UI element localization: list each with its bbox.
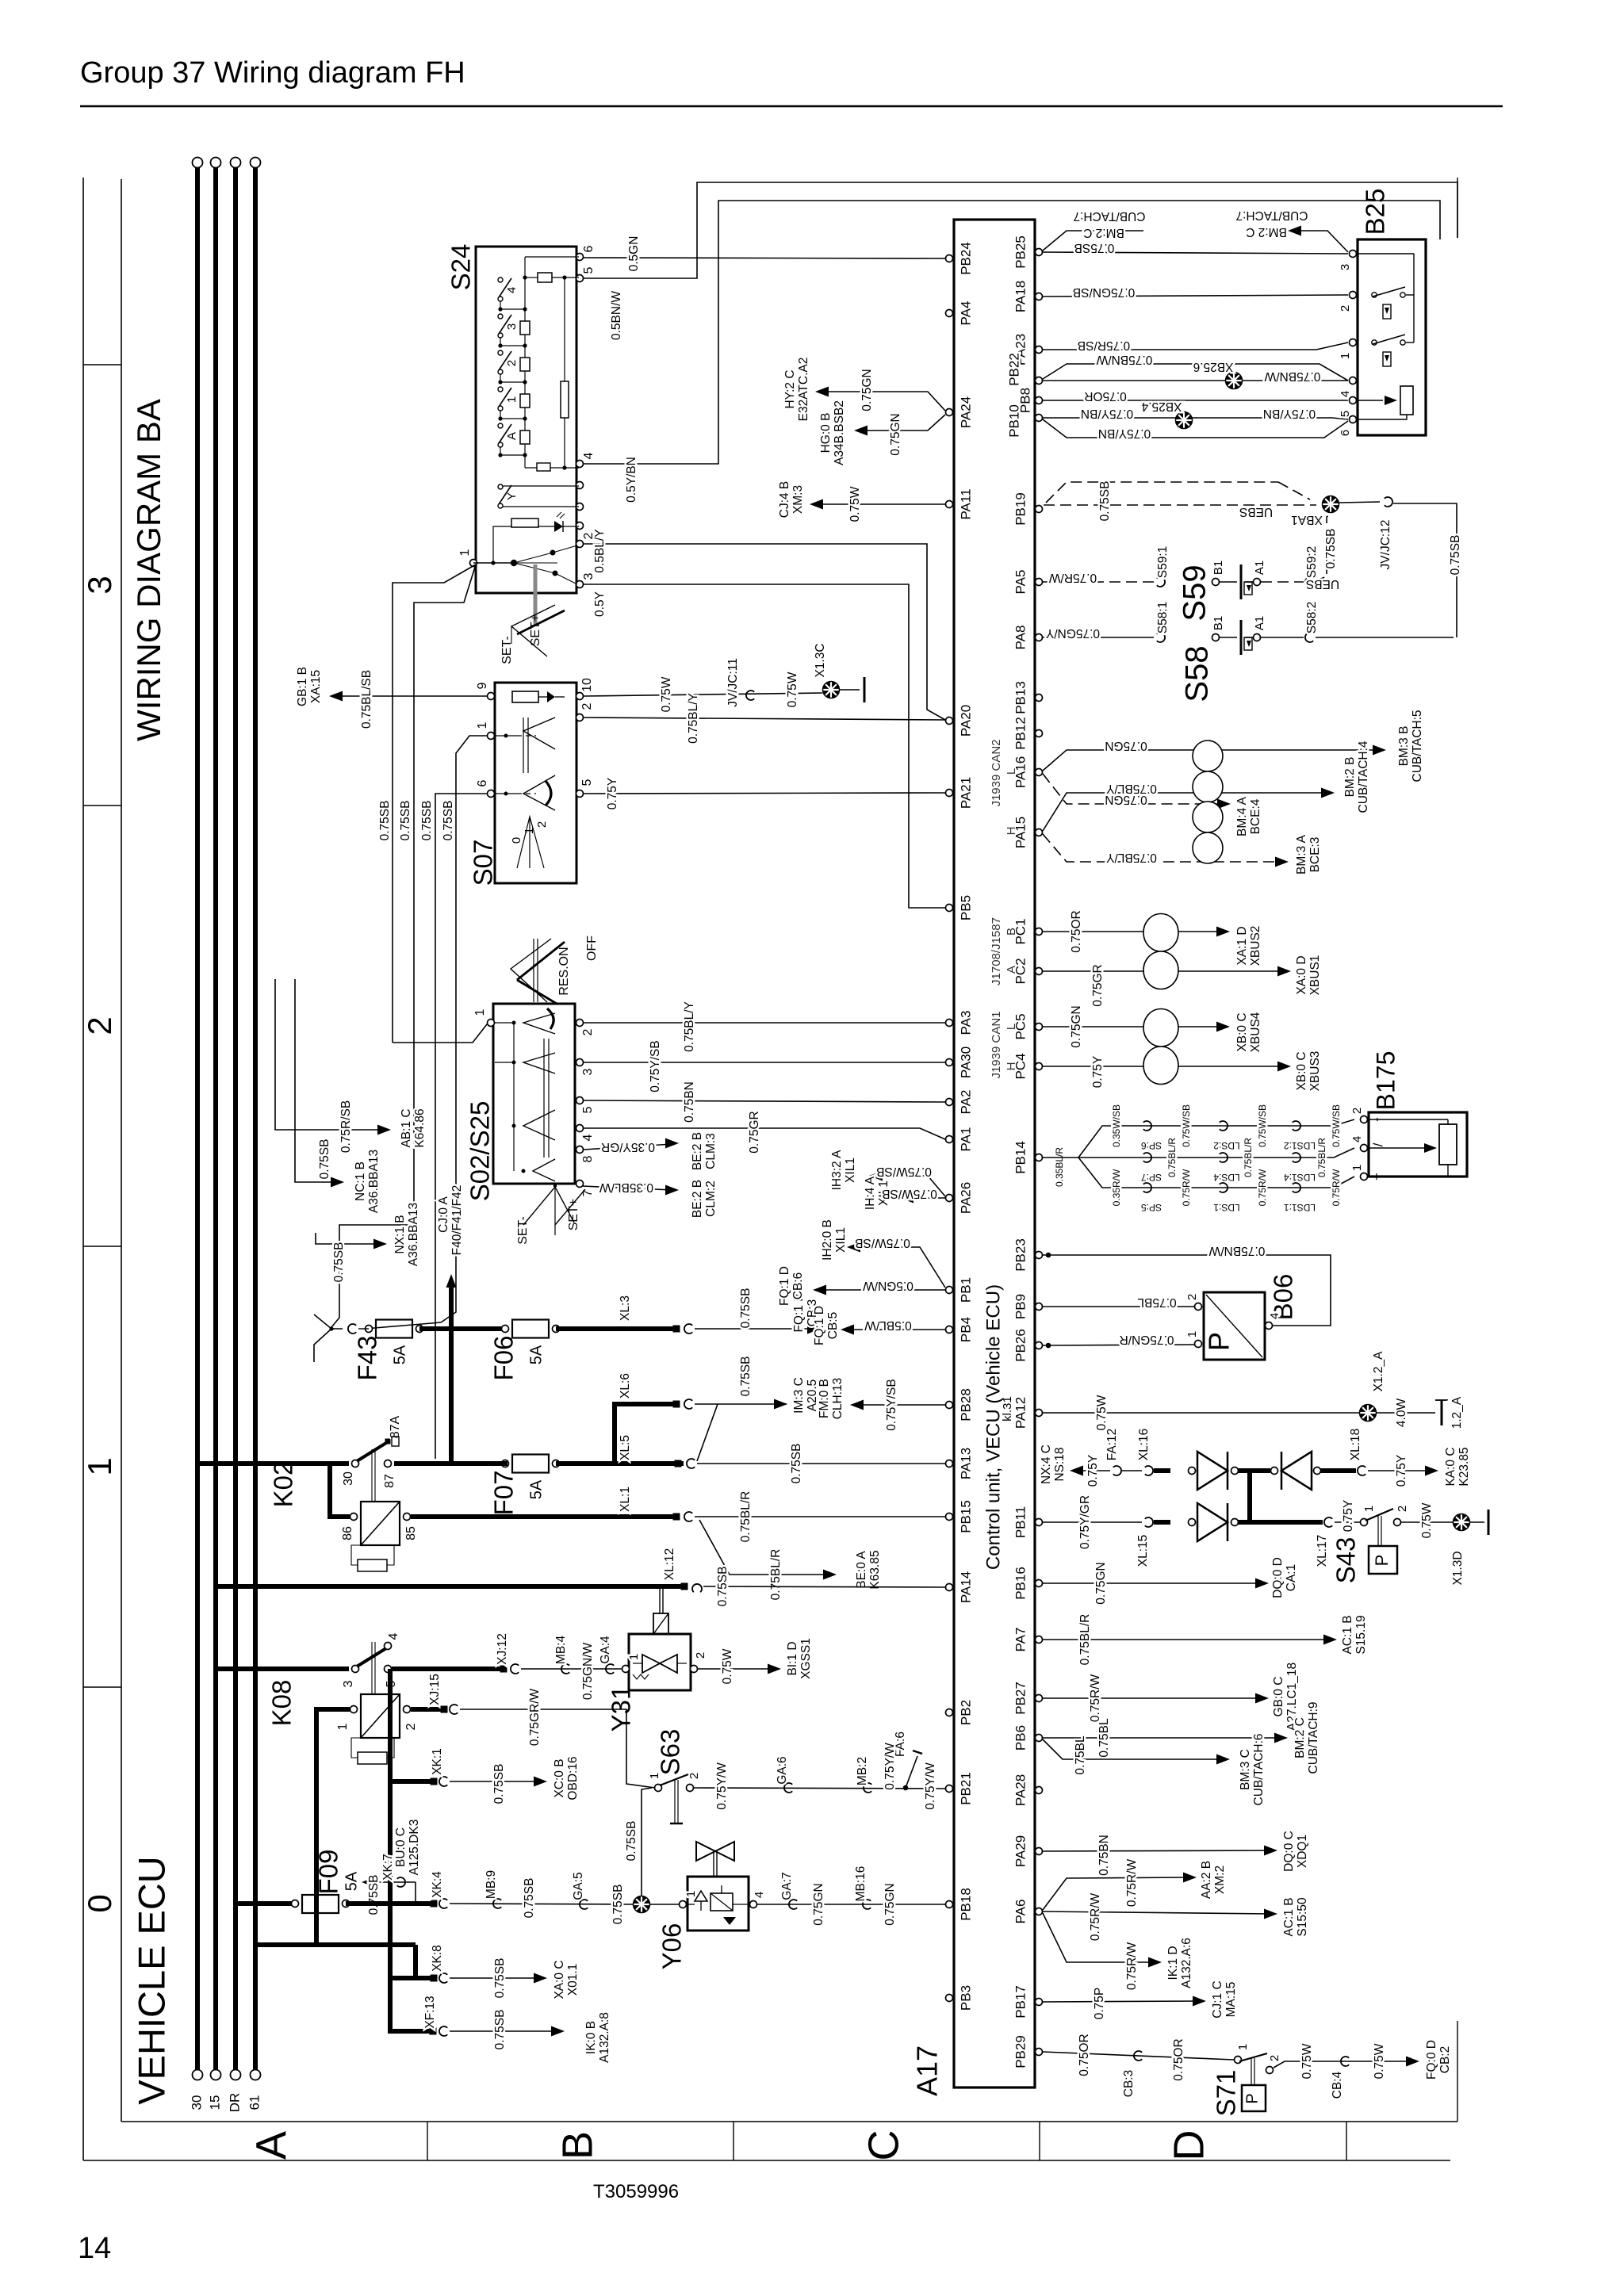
- svg-text:CB:2: CB:2: [1438, 2046, 1452, 2073]
- svg-text:5A: 5A: [391, 1345, 408, 1364]
- wire PA26 split to XIL1 arrows: [875, 1176, 945, 1196]
- F43 input V split: [314, 1314, 343, 1329]
- K08 coil: [361, 1694, 400, 1738]
- ground X1.3D: [1488, 1510, 1490, 1535]
- svg-text:0.75Y/BN: 0.75Y/BN: [1098, 427, 1151, 440]
- svg-text:5A: 5A: [527, 1479, 545, 1499]
- svg-text:IM:3 C: IM:3 C: [792, 1377, 806, 1414]
- svg-text:PB5: PB5: [958, 895, 973, 920]
- svg-text:A125.DK3: A125.DK3: [408, 1820, 421, 1876]
- A17 pin PA21: [946, 790, 953, 797]
- thick wire to XF:13: [390, 1945, 432, 2031]
- svg-text:IH:4 A: IH:4 A: [864, 1176, 877, 1210]
- svg-text:F06: F06: [489, 1336, 519, 1381]
- svg-text:1: 1: [473, 1008, 487, 1016]
- wire S07 pin10 right (0.75W JV/JC:11): [584, 693, 822, 696]
- svg-text:PA2: PA2: [958, 1090, 973, 1115]
- LDS row 3: [1078, 1158, 1354, 1188]
- frame letter tick 2: [733, 2122, 734, 2160]
- K08 terminal 4: [385, 1643, 392, 1650]
- svg-text:PA30: PA30: [958, 1047, 973, 1078]
- svg-text:0.75SB: 0.75SB: [493, 2010, 507, 2050]
- svg-text:PB6: PB6: [1013, 1725, 1028, 1751]
- B175 pin 4: [1361, 1145, 1368, 1152]
- svg-text:0.75BN/W: 0.75BN/W: [1096, 353, 1152, 366]
- svg-text:0.5GN/W: 0.5GN/W: [863, 1279, 913, 1292]
- svg-text:4: 4: [505, 287, 519, 293]
- connector LDS:2: [1220, 1121, 1228, 1131]
- svg-text:0.75BL/Y: 0.75BL/Y: [687, 693, 700, 744]
- A17 pin PB23: [1036, 1252, 1043, 1259]
- wire PA12 branch / NX:4 C NS:18 arrow: [1070, 1466, 1083, 1476]
- frame letter tick 1: [427, 2122, 428, 2160]
- svg-text:0.35Y/GR: 0.35Y/GR: [601, 1140, 655, 1154]
- S71 lever: [1239, 2053, 1267, 2061]
- svg-text:0.75R/W: 0.75R/W: [1125, 1858, 1139, 1907]
- svg-text:F40/F41/F42: F40/F41/F42: [450, 1185, 464, 1256]
- svg-text:PA28: PA28: [1013, 1774, 1028, 1806]
- svg-text:SET-: SET-: [500, 636, 514, 664]
- svg-text:61: 61: [247, 2095, 262, 2110]
- A17 pin PB16: [1036, 1580, 1043, 1587]
- B25 internal switches: [1372, 293, 1377, 297]
- K02 terminal 86: [350, 1513, 358, 1521]
- svg-text:4: 4: [1350, 1136, 1364, 1142]
- thick wire bus15 to XL:12: [216, 1584, 682, 1589]
- junction at PB23: [1046, 1253, 1051, 1258]
- twisted pair CAN2 lower: [1193, 802, 1223, 832]
- S43 lever: [1365, 1509, 1393, 1521]
- connector XL:5: [687, 1459, 695, 1468]
- wire X1.3C to ground: [840, 689, 860, 691]
- svg-text:S59:1: S59:1: [1156, 546, 1170, 579]
- svg-text:XIL1: XIL1: [844, 1158, 857, 1183]
- svg-text:0.75BN: 0.75BN: [1097, 1835, 1111, 1876]
- wire PB10 branch (0.75Y/BN) lower: [1043, 419, 1348, 438]
- B25 internal wiring: [1358, 253, 1414, 254]
- svg-text:0.75OR: 0.75OR: [1070, 910, 1083, 952]
- A17 pin PB21: [946, 1785, 953, 1793]
- wire 0.75SB vertical a (S24 pin1 to S02 pin1): [393, 564, 476, 1043]
- A17 pin PC4: [1036, 1063, 1043, 1070]
- svg-text:MB:9: MB:9: [485, 1870, 498, 1899]
- svg-text:1: 1: [1236, 2044, 1250, 2050]
- svg-text:BCE:4: BCE:4: [1249, 798, 1262, 834]
- svg-text:2: 2: [404, 1723, 418, 1730]
- wire PB29 to S71 chain (0.75OR): [1043, 2052, 1234, 2060]
- svg-text:2: 2: [1268, 2055, 1281, 2061]
- connector XK:1: [439, 1777, 447, 1786]
- thick wire F43 out to F06: [419, 1326, 507, 1331]
- svg-text:B1: B1: [1212, 616, 1225, 630]
- wire S24 pin6 to A17 PB24 (0.5GN): [584, 258, 945, 258]
- svg-text:A132.A:6: A132.A:6: [1180, 1938, 1193, 1988]
- wire S07 pin1 down: [365, 736, 487, 1329]
- svg-text:BM:2 C: BM:2 C: [1083, 226, 1124, 239]
- svg-text:K64.86: K64.86: [413, 1108, 427, 1147]
- svg-text:1: 1: [336, 1723, 350, 1730]
- A17 pin PB8: [1036, 397, 1043, 404]
- svg-text:PA13: PA13: [958, 1448, 973, 1479]
- svg-text:0.75BL: 0.75BL: [1074, 1735, 1087, 1775]
- S24 resistor ladder: [524, 257, 526, 468]
- svg-text:XL:1: XL:1: [619, 1487, 632, 1512]
- wire XJ:12 to Y31 pin1 (0.75GN/W): [521, 1668, 622, 1670]
- B175 pin 2: [1361, 1116, 1368, 1123]
- svg-text:XL:15: XL:15: [1136, 1535, 1150, 1567]
- wire K08-5 to XJ:12: [392, 1667, 501, 1671]
- svg-text:1: 1: [684, 1891, 698, 1897]
- wire XK:4 chain MB:9 GA:5 to Y06 (0.75SB): [450, 1904, 634, 1904]
- twisted pair CAN2 upper: [1193, 740, 1223, 771]
- svg-text:GB:1 B: GB:1 B: [296, 667, 309, 706]
- svg-text:XA:0 C: XA:0 C: [553, 1960, 566, 1999]
- svg-text:PB15: PB15: [958, 1500, 973, 1533]
- svg-text:3: 3: [505, 323, 519, 330]
- wire PB22 straight to B25 pin4: [1043, 380, 1348, 381]
- wire XK:7 to BU:0 C A125.DK3 (0.75SB): [368, 1881, 416, 1883]
- wire PA6 branch up to AA:2 B XM:2 (0.75R/W): [1043, 1877, 1190, 1910]
- svg-text:5: 5: [581, 1106, 595, 1113]
- wire Y06 pin1 from splice: [650, 1904, 679, 1905]
- wire S63 pin2 to A17 PB21 chain (0.75Y/W): [694, 1788, 945, 1789]
- svg-text:6: 6: [476, 779, 489, 786]
- svg-text:0.75GN: 0.75GN: [883, 1883, 897, 1925]
- svg-text:DR: DR: [227, 2093, 242, 2113]
- svg-text:MB:16: MB:16: [854, 1866, 868, 1902]
- svg-text:0.75Y/BN: 0.75Y/BN: [1263, 407, 1316, 420]
- wire 0.75SB vertical b (S24 pin1 to F43 area): [331, 564, 476, 1327]
- svg-text:XB25.6: XB25.6: [1193, 360, 1234, 373]
- S59 switch bar: [1240, 564, 1243, 599]
- S43 pin 1: [1361, 1519, 1368, 1526]
- svg-text:0.75W: 0.75W: [848, 486, 862, 522]
- svg-text:0.75Y/GR: 0.75Y/GR: [1078, 1495, 1092, 1549]
- svg-text:BCE:3: BCE:3: [1308, 837, 1322, 873]
- LDS row 2: [1043, 1148, 1354, 1158]
- wire S24 pin5 up-over (0.5BN/W): [584, 182, 1457, 278]
- K08 switch arm: [357, 1648, 386, 1667]
- connector XJ:12: [511, 1664, 519, 1674]
- thick wire F07 out to XL:5 / XL:6: [556, 1461, 684, 1466]
- wire PC2 (0.75GR) to XA:0 D XBUS1: [1043, 970, 1285, 972]
- splice X1.3C: [823, 682, 840, 698]
- svg-text:CUB/TACH:4: CUB/TACH:4: [1357, 740, 1370, 813]
- fuse F43: [376, 1320, 412, 1338]
- svg-text:1: 1: [476, 721, 489, 729]
- wire XF:13 to IK:0 B A132.A:8 (0.75SB): [450, 2030, 558, 2032]
- svg-text:0.75BL/SB: 0.75BL/SB: [360, 670, 373, 729]
- svg-text:0.5BL/Y: 0.5BL/Y: [593, 529, 607, 572]
- wire PC1 (0.75OR) to XA:1 D XBUS2: [1043, 931, 1224, 932]
- svg-text:PA4: PA4: [958, 301, 973, 326]
- svg-text:4: 4: [1339, 391, 1352, 397]
- svg-text:CB:3: CB:3: [1122, 2070, 1136, 2097]
- S58 switch bar: [1240, 620, 1243, 655]
- S24 internal lamp: [511, 519, 538, 527]
- A17 pin PB29: [1036, 2049, 1043, 2056]
- B25 pin 5: [1350, 397, 1357, 404]
- thick wire to K02-86: [330, 1464, 350, 1517]
- svg-text:K02: K02: [269, 1461, 298, 1508]
- svg-text:K08: K08: [267, 1680, 297, 1727]
- wire PA24 split to HY and HG arrows: [822, 392, 945, 411]
- thick wire to XK:8: [390, 1976, 432, 1980]
- B25 pin 4: [1350, 377, 1357, 385]
- frame scale tick 4: [83, 1686, 121, 1688]
- header rule: [80, 105, 1503, 108]
- svg-text:S15.19: S15.19: [1354, 1615, 1368, 1654]
- svg-text:OFF: OFF: [585, 936, 599, 961]
- svg-text:0.75Y/SB: 0.75Y/SB: [885, 1379, 898, 1431]
- svg-text:0.5BN/W: 0.5BN/W: [610, 291, 623, 340]
- frame scale tick 2: [83, 805, 121, 806]
- connector GA:5: [580, 1900, 588, 1909]
- svg-text:XK:7: XK:7: [381, 1854, 395, 1881]
- wire S02 pin8 arrow BE:2 B CLM:3 (0.35Y/GR): [584, 1144, 672, 1150]
- svg-text:A: A: [247, 2131, 295, 2160]
- K02 resistor: [358, 1559, 387, 1571]
- svg-text:PA18: PA18: [1013, 281, 1028, 312]
- svg-text:LDS1:2: LDS1:2: [1284, 1140, 1316, 1151]
- Y31 spring: [633, 1674, 649, 1679]
- wire XL:3 to FQ:1 B CB:3 (0.75SB): [695, 1328, 814, 1330]
- S02/S25 pin 3: [576, 1059, 584, 1066]
- svg-text:Y06: Y06: [657, 1923, 687, 1970]
- svg-text:0.75Y: 0.75Y: [1342, 1500, 1355, 1533]
- svg-text:0.75W: 0.75W: [1420, 1502, 1434, 1538]
- svg-text:0.75SB: 0.75SB: [1449, 535, 1462, 576]
- svg-text:0.75SB: 0.75SB: [523, 1878, 536, 1919]
- connector LDS1:1: [1293, 1183, 1300, 1192]
- svg-text:/: /: [1370, 1142, 1385, 1146]
- svg-text:4: 4: [1268, 1313, 1281, 1319]
- S63 pin 2: [687, 1785, 694, 1792]
- wire XL:1 branch to BE:0 A K63.85 (0.75BL/R): [699, 1520, 830, 1575]
- svg-text:AA:2 B: AA:2 B: [1200, 1861, 1213, 1899]
- svg-text:XK:4: XK:4: [431, 1871, 444, 1898]
- A17 pin PB24: [946, 255, 953, 262]
- svg-text:A: A: [1005, 966, 1018, 974]
- S24 internal switch 4: [498, 277, 503, 282]
- wire PB27 to GB:0 C A27.LC1_18 (0.75R/W): [1043, 1697, 1262, 1699]
- svg-text:XA:0 D: XA:0 D: [1295, 955, 1308, 994]
- splice XB25.4: [1176, 412, 1193, 429]
- connector S59:1: [1157, 577, 1165, 587]
- connector GA:4: [606, 1664, 614, 1674]
- S07 pin 9: [488, 693, 495, 700]
- connector XL:15: [1145, 1517, 1153, 1527]
- thick wire bus61 to K08-1: [316, 1709, 350, 1945]
- svg-text:2: 2: [694, 1652, 707, 1659]
- svg-text:A132.A:8: A132.A:8: [598, 2012, 611, 2063]
- A17 pin PA28: [1036, 1787, 1043, 1794]
- svg-text:PB2: PB2: [958, 1700, 973, 1725]
- wire PA23 to B25 pin1 (0.75R/SB): [1043, 342, 1348, 350]
- wire S02 pin3 to A17 PA30 (0.75Y/SB): [584, 1062, 945, 1063]
- svg-text:A36.BBA13: A36.BBA13: [407, 1203, 420, 1266]
- S02/S25 pin 1: [488, 1020, 495, 1027]
- svg-text:0.5GN: 0.5GN: [627, 236, 641, 272]
- wire to AB:1 C K64.86 (0.75R/SB): [275, 979, 385, 1130]
- svg-text:0.75R/W: 0.75R/W: [1331, 1169, 1342, 1206]
- svg-text:0.5Y: 0.5Y: [593, 591, 607, 617]
- svg-text:XBA1: XBA1: [1291, 513, 1323, 526]
- thick wire D2 to XL:18: [1320, 1468, 1356, 1473]
- K02 coil: [361, 1502, 400, 1545]
- svg-text:RES.ON: RES.ON: [557, 947, 571, 995]
- connector at F43 input: [348, 1324, 356, 1334]
- svg-text:4: 4: [582, 452, 596, 459]
- A17 pin PB17: [1036, 1999, 1043, 2006]
- svg-text:A: A: [505, 432, 519, 440]
- svg-text:SP:7: SP:7: [1141, 1172, 1162, 1183]
- thick link to diode D2: [1238, 1468, 1270, 1473]
- svg-text:A1: A1: [1253, 616, 1266, 630]
- svg-text:0.75Y: 0.75Y: [606, 778, 619, 810]
- A17 pin PA7: [1036, 1636, 1043, 1644]
- B25 pin 6: [1350, 416, 1357, 423]
- svg-text:CUB/TACH:9: CUB/TACH:9: [1307, 1701, 1320, 1774]
- A17 pin PC1: [1036, 928, 1043, 936]
- svg-text:SET+: SET+: [529, 614, 542, 646]
- S24 pin 6: [576, 254, 584, 261]
- A17 pin PA13: [946, 1460, 953, 1468]
- svg-text:CA:1: CA:1: [1285, 1564, 1298, 1591]
- frame letter tick 4: [1346, 2122, 1347, 2160]
- svg-text:0.75GN: 0.75GN: [1105, 739, 1147, 752]
- A17 pin PB19: [1036, 506, 1043, 513]
- S02 set lever symbol: [555, 1189, 585, 1225]
- A17 pin PA6: [1036, 1908, 1043, 1915]
- svg-text:XC:0 B: XC:0 B: [553, 1758, 566, 1797]
- wire PC5 (0.75GN) to XB:0 C XBUS4: [1043, 1026, 1224, 1027]
- svg-text:PA21: PA21: [958, 777, 973, 809]
- svg-text:2: 2: [580, 702, 594, 710]
- A17 pin PB3: [946, 1995, 953, 2002]
- thick wire to XK:1: [390, 1779, 432, 1784]
- A17 pin PA20: [946, 717, 953, 725]
- svg-text:IK:0 B: IK:0 B: [584, 2021, 598, 2054]
- svg-text:E32ATC.A2: E32ATC.A2: [797, 358, 810, 422]
- A17 pin PB12: [1036, 730, 1043, 737]
- svg-text:H: H: [1005, 827, 1018, 836]
- connector XL:3: [684, 1324, 692, 1334]
- svg-text:PA20: PA20: [958, 705, 973, 737]
- svg-text:L: L: [1005, 768, 1018, 775]
- A17 pin PA23: [1036, 346, 1043, 354]
- S24 internal switch A: [498, 423, 503, 428]
- svg-text:2: 2: [1350, 1108, 1364, 1114]
- svg-text:XJ:15: XJ:15: [428, 1674, 442, 1705]
- svg-text:XA:1 D: XA:1 D: [1235, 926, 1249, 965]
- thick wire into diode D1: [1154, 1468, 1170, 1473]
- svg-text:XL:3: XL:3: [619, 1295, 632, 1321]
- diode reversed at XL:18: [1271, 1468, 1278, 1475]
- svg-text:0.75SB: 0.75SB: [367, 1875, 381, 1915]
- Y06 pin 4: [750, 1901, 757, 1908]
- connector LDS1:2: [1293, 1121, 1300, 1131]
- svg-text:WIRING DIAGRAM BA: WIRING DIAGRAM BA: [130, 399, 167, 741]
- svg-text:PB27: PB27: [1013, 1682, 1028, 1715]
- connector XL:18: [1358, 1466, 1365, 1475]
- wire S02 pin7 arrow BE:2 B CLM:2 (0.35BL/W): [582, 1186, 672, 1190]
- wire PB6 to BM:2 C CUB/TACH:9 (0.75BL): [1043, 1737, 1281, 1739]
- svg-text:FQ:1 D: FQ:1 D: [778, 1266, 791, 1306]
- wire S02 pin4 to A17 PA1 (0.75GR): [584, 1128, 945, 1139]
- svg-text:GA:7: GA:7: [780, 1872, 794, 1900]
- Y06 butterfly valve: [696, 1842, 715, 1861]
- svg-text:BM:4 A: BM:4 A: [1235, 796, 1249, 836]
- svg-text:0.75GR/W: 0.75GR/W: [528, 1688, 542, 1746]
- svg-text:0.75W/SB: 0.75W/SB: [876, 1165, 932, 1178]
- svg-text:0.75GN/Y: 0.75GN/Y: [1046, 626, 1100, 640]
- svg-text:0: 0: [510, 837, 523, 844]
- wire PB9 to B06 pin2 (0.75BL): [1043, 1306, 1194, 1307]
- svg-text:P: P: [1372, 1555, 1392, 1567]
- svg-text:FM:0 B: FM:0 B: [818, 1379, 831, 1418]
- wire PA29 to DQ:0 C XDQ1 (0.75BN): [1043, 1850, 1271, 1851]
- B175 internal wiring: [1369, 1119, 1448, 1120]
- svg-text:XB25.4: XB25.4: [1141, 400, 1182, 413]
- svg-text:2: 2: [505, 360, 519, 366]
- connector MB:9: [493, 1899, 501, 1908]
- svg-text:X1.3D: X1.3D: [1451, 1551, 1465, 1585]
- svg-text:0.75SB: 0.75SB: [1324, 529, 1338, 569]
- B25 pin 3: [1350, 251, 1357, 258]
- svg-text:2: 2: [81, 1016, 118, 1035]
- A17 pin PC5: [1036, 1024, 1043, 1031]
- S24 pin1 fanout hub: [473, 562, 514, 564]
- svg-text:0.75SB: 0.75SB: [442, 801, 455, 841]
- svg-text:A34B.BSB2: A34B.BSB2: [833, 400, 846, 465]
- svg-text:PA1: PA1: [958, 1127, 973, 1152]
- svg-text:B: B: [1005, 928, 1018, 936]
- S24 pin5 feed with resistor: [552, 277, 579, 278]
- svg-text:BU:0 C: BU:0 C: [394, 1827, 408, 1867]
- svg-text:0.75SB: 0.75SB: [625, 1821, 638, 1862]
- svg-text:0.75SB: 0.75SB: [739, 1357, 753, 1397]
- svg-text:BE:0 A: BE:0 A: [855, 1551, 868, 1589]
- svg-text:3: 3: [81, 576, 118, 594]
- svg-text:L: L: [1005, 1024, 1018, 1030]
- svg-text:AC:1 B: AC:1 B: [1282, 1897, 1296, 1936]
- svg-text:PB17: PB17: [1013, 1985, 1028, 2019]
- sensor unit B25: [1358, 239, 1426, 435]
- connector XL:1: [684, 1512, 692, 1521]
- svg-text:PB22: PB22: [1006, 353, 1021, 386]
- connector S58:2: [1305, 633, 1313, 642]
- fuse F09 body: [302, 1895, 339, 1913]
- junction FA:6 branch: [903, 1785, 909, 1791]
- frame scale tick 3: [83, 1246, 121, 1247]
- dashed wire S59:2: [1261, 581, 1304, 583]
- svg-text:PA29: PA29: [1013, 1835, 1028, 1867]
- svg-text:0.75SB: 0.75SB: [378, 801, 392, 841]
- Y06 pin 1: [680, 1901, 687, 1908]
- S24 pin (unnumbered): [576, 482, 584, 489]
- svg-text:0.75SB: 0.75SB: [332, 1242, 346, 1283]
- svg-text:0.75BL: 0.75BL: [1137, 1295, 1177, 1309]
- svg-text:PB10: PB10: [1006, 404, 1021, 438]
- S24 pin4 row: [525, 467, 579, 469]
- S07 pin 6: [488, 790, 495, 798]
- S24 internal switch 3: [498, 314, 503, 319]
- svg-text:SET-: SET-: [516, 1216, 530, 1245]
- svg-text:XL:5: XL:5: [619, 1435, 632, 1460]
- svg-text:0.75Y/W: 0.75Y/W: [883, 1743, 897, 1790]
- frame letter tick 3: [1039, 2122, 1040, 2160]
